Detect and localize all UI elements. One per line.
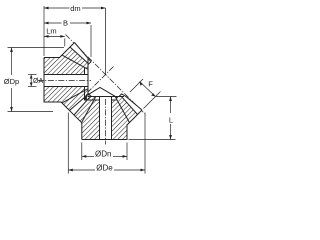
- left gear hatch upper body and flank: [44, 55, 85, 74]
- dimension dm: [44, 6, 106, 56]
- bottom gear root line left: [82, 97, 96, 123]
- left gear front face inner lower: [84, 87, 86, 101]
- mesh shared line left-land / bottom-tip: [70, 95, 88, 110]
- bottom gear left tooth toe chamfer: [86, 94, 92, 97]
- left gear root line lower: [62, 89, 88, 103]
- mesh heel line common: [61, 102, 82, 123]
- bottom gear adjacent tooth silhouette: [88, 88, 117, 98]
- mesh shared line left-tip / bottom-land: [74, 98, 89, 115]
- left gear front face inner upper: [84, 68, 86, 75]
- dimension L: [129, 97, 177, 140]
- dimension F: [130, 79, 161, 109]
- left gear lower toe chamfer: [88, 93, 91, 99]
- dimension B: [44, 23, 91, 57]
- dimension ODn: [82, 143, 127, 161]
- left gear root line upper: [62, 55, 88, 69]
- left gear land line upper: [70, 47, 88, 64]
- svg-text:dm: dm: [70, 4, 80, 13]
- bottom gear top face inner right: [112, 99, 117, 101]
- bottom gear hatch left body and flank: [82, 100, 100, 140]
- svg-text:ØDn: ØDn: [95, 150, 111, 159]
- mesh toe contact wedge: [83, 96, 87, 102]
- svg-text:Lm: Lm: [46, 27, 56, 36]
- vertical axis extension from dm: [105, 8, 107, 75]
- left gear axis centerline: [38, 80, 92, 82]
- bottom gear outline: [82, 97, 142, 140]
- bottom gear top face outer: [88, 96, 125, 98]
- svg-text:L: L: [169, 116, 173, 125]
- bottom gear root line right: [115, 97, 129, 123]
- left gear hatch lower body and flank: [44, 87, 85, 103]
- svg-text:ØDe: ØDe: [96, 164, 113, 173]
- mesh pitch centerline -45deg through apex: [84, 67, 114, 97]
- bottom gear hatch right body and flank: [112, 100, 130, 140]
- svg-text:ØDp: ØDp: [4, 77, 19, 86]
- left gear tip line upper: [75, 43, 92, 65]
- pitch centerline 45deg through apex: [66, 35, 147, 116]
- bottom gear bore centerline: [105, 99, 107, 145]
- bottom gear land line right: [121, 96, 137, 114]
- dimension ODp: [8, 48, 65, 112]
- svg-text:ØA: ØA: [33, 78, 43, 85]
- bottom gear body fill: [82, 94, 142, 140]
- dimension OA: [28, 75, 37, 87]
- left gear outline: [44, 43, 88, 103]
- svg-text:F: F: [148, 80, 153, 89]
- svg-text:B: B: [63, 19, 68, 28]
- dimension ODe: [68, 113, 145, 174]
- bottom gear tip line right: [119, 94, 142, 110]
- left gear front face outer: [87, 59, 89, 96]
- bottom gear top face inner left: [84, 99, 99, 101]
- left gear body fill: [44, 43, 91, 116]
- dimension Lm: [44, 36, 65, 46]
